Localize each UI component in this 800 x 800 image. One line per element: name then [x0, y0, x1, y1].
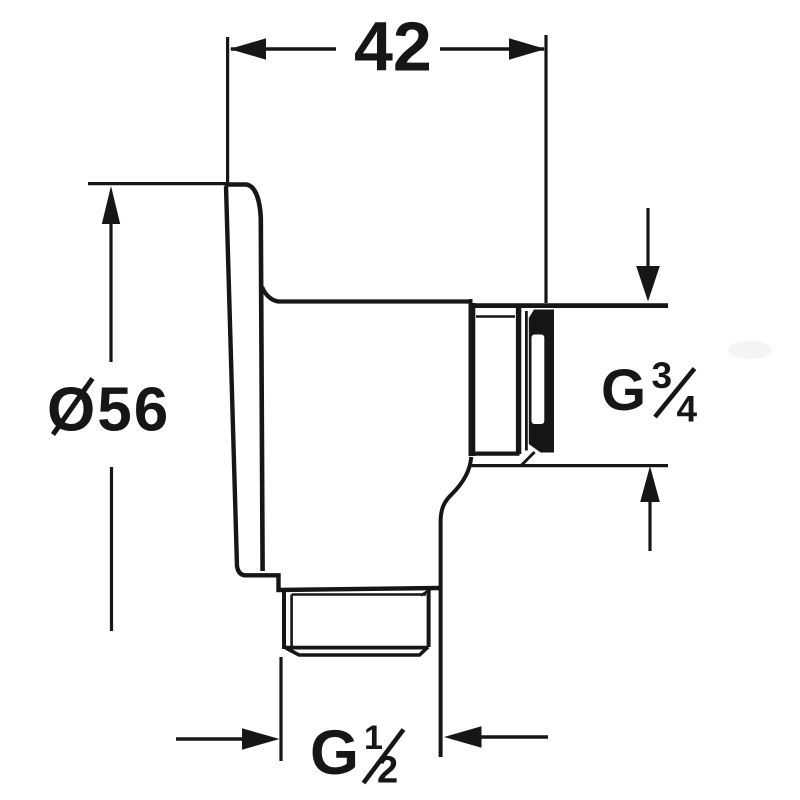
body neck top edge branching from flange to G3/4 outlet	[262, 287, 471, 302]
svg-text:3: 3	[652, 355, 673, 396]
wall flange outer slanted edge, bottom edge and step down to body	[226, 187, 440, 591]
dimension D56: up arrowhead	[102, 186, 120, 224]
G3/4 nut top chamfer line	[476, 315, 515, 318]
dimension G1/2: right arrowhead	[444, 726, 482, 747]
G3/4 bottom edge second line with extension to the right	[471, 464, 668, 467]
G3/4 outlet top edge with extension line to the right	[469, 303, 668, 308]
dimension D56: lower shaft	[110, 467, 113, 631]
faint smudge artifact	[728, 341, 772, 359]
dimension G3/4: fraction slash	[655, 369, 695, 418]
dimension G3/4: up arrowhead	[640, 466, 660, 502]
dimension G1/2: left extension line	[279, 657, 282, 761]
dimension G1/2: left arrowhead	[242, 728, 280, 749]
dimension D56: upper shaft	[109, 222, 112, 362]
G3/4 nut bottom edge	[469, 452, 520, 456]
dimension G3/4: down arrowhead	[636, 266, 660, 302]
svg-text:Ø56: Ø56	[47, 376, 170, 445]
G1/2 outlet right edge	[427, 589, 431, 648]
dimension D56: diameter slash overstrike	[53, 379, 93, 435]
dimension G1/2: left dimension line	[176, 737, 246, 740]
dimension G3/4: down arrow shaft	[646, 208, 649, 270]
G3/4 thread black block with chamfered bottom-left corner	[529, 310, 554, 453]
dimension G3/4: up arrow shaft	[648, 500, 651, 551]
body lower-right curved edge into G1/2 extension line	[441, 457, 472, 757]
svg-text:G: G	[601, 358, 646, 423]
G1/2 outlet top right chamfer diagonal	[421, 590, 431, 596]
G1/2 outlet left edge	[282, 590, 286, 650]
G3/4 bottom chamfer diagonal	[521, 452, 535, 466]
dimension G1/2: fraction slash	[364, 730, 404, 784]
G1/2 outlet inner chamfer vertical	[290, 595, 293, 647]
dimension 42: right extension line	[544, 35, 547, 303]
G3/4 thread white highlight window	[532, 335, 545, 425]
svg-text:G: G	[310, 718, 359, 788]
dimension G1/2: right dimension line	[480, 735, 548, 738]
G1/2 outlet top chamfer line	[292, 593, 426, 596]
G3/4 ring groove line 2	[525, 311, 528, 451]
G3/4 nut left edge / body right edge upper part	[468, 303, 475, 456]
G1/2 outlet bottom edge	[285, 646, 429, 650]
dimension 42: left arrowhead	[230, 38, 267, 59]
wall flange outline (top edge, right rounded corner, inner face edge)	[225, 185, 263, 572]
svg-text:42: 42	[354, 8, 432, 86]
dimension 42: left extension line	[226, 37, 229, 184]
svg-text:4: 4	[677, 389, 698, 430]
dimension 42: right arrowhead	[509, 38, 546, 59]
G3/4 nut right edge	[516, 307, 521, 454]
svg-text:2: 2	[377, 750, 398, 792]
dimension 42: left dimension line	[231, 47, 336, 50]
dimension D56: extension line at flange top	[88, 182, 226, 185]
dimension 42: right dimension line	[440, 47, 544, 50]
small step edge at outlet root	[469, 299, 473, 308]
G1/2 outlet bottom chamfer edge	[286, 647, 428, 655]
